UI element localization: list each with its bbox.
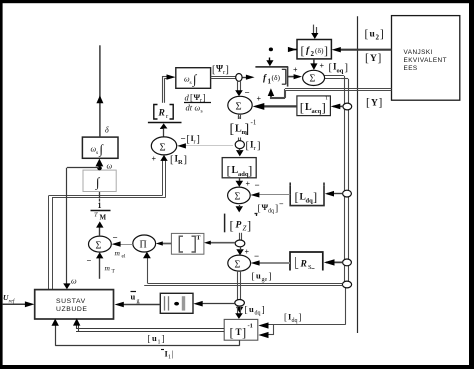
svg-text:−: − — [279, 200, 284, 209]
svg-text:R: R — [158, 109, 165, 119]
node label [u_1] — [148, 333, 165, 346]
wire S5 down to node u_dq — [238, 271, 241, 300]
svg-text:]: ] — [184, 155, 188, 166]
svg-text:Ψ: Ψ — [216, 64, 223, 74]
svg-text:[: [ — [148, 334, 151, 344]
summer S2 — [228, 96, 252, 121]
svg-text:[: [ — [227, 163, 231, 178]
wire I_1 feedback from T-1 bottom to SUSTAV bottom — [52, 319, 240, 346]
svg-text:dq: dq — [306, 198, 314, 205]
wire stub into f2 from top — [311, 25, 318, 39]
node circle [I_r] tap — [235, 138, 260, 153]
svg-text:[: [ — [230, 122, 235, 137]
block SUSTAV UZBUDE — [35, 290, 114, 319]
junction node at Psi_r branch — [236, 74, 242, 82]
svg-text:]: ] — [197, 134, 200, 145]
multiplier PI — [133, 235, 156, 252]
wire f1 to summer S1 — [288, 66, 302, 80]
svg-text:dq: dq — [292, 318, 298, 324]
wire bus continues below junction to T-1 inputs — [258, 288, 346, 339]
wire node down into summer S5 — [236, 247, 249, 257]
svg-text:]: ] — [379, 97, 383, 109]
svg-text:]: ] — [378, 53, 382, 65]
wire node down to T-1 — [235, 306, 243, 319]
svg-text:ω: ω — [71, 277, 77, 286]
svg-text:el: el — [122, 254, 126, 260]
node label [I_dq0] — [284, 312, 302, 325]
svg-text:[: [ — [258, 204, 261, 214]
wire R_r up into integrator — [162, 74, 175, 102]
node label [Y] upper — [365, 53, 381, 65]
svg-text:[: [ — [230, 219, 234, 233]
wire R_s to summer S5 — [251, 251, 290, 266]
node label [I_oq] — [329, 62, 349, 75]
block 1/T_M — [91, 199, 111, 222]
svg-text:oq: oq — [337, 68, 344, 75]
block omega_s integrator (delta) — [82, 137, 118, 158]
wire I_r into summer S3 — [177, 143, 233, 148]
svg-text:S: S — [308, 264, 312, 271]
svg-text:+: + — [293, 66, 298, 75]
svg-text:VANJSKI: VANJSKI — [404, 49, 433, 56]
separator line (network boundary) — [357, 16, 359, 333]
svg-text:[: [ — [295, 190, 299, 204]
node label [Psi_r] — [212, 64, 229, 77]
wire node to transpose box — [204, 241, 235, 245]
svg-text:]: ] — [262, 306, 265, 316]
block [L_adq] — [222, 158, 256, 178]
block [T]^-1 — [224, 319, 258, 340]
wire [Psi_r] output pair to junction and f1 — [211, 75, 255, 80]
svg-text:2: 2 — [311, 50, 315, 58]
svg-text:[: [ — [252, 272, 255, 282]
svg-text:]: ] — [248, 163, 252, 178]
svg-text:]: ] — [380, 29, 384, 41]
svg-text:[: [ — [212, 65, 215, 76]
svg-text:UZBUDE: UZBUDE — [56, 306, 88, 313]
svg-text:Y: Y — [371, 99, 378, 109]
node label [u_dq] — [245, 304, 265, 317]
svg-text:-1: -1 — [248, 323, 253, 330]
svg-text:−: − — [181, 134, 186, 144]
block [L_dq] — [290, 183, 324, 206]
node label [u_ge] — [252, 271, 272, 284]
svg-text:Σ: Σ — [160, 143, 166, 154]
svg-text:−: − — [245, 88, 250, 98]
block [L_acq] upper — [297, 96, 331, 116]
svg-text:m: m — [105, 264, 111, 273]
svg-text:Y: Y — [370, 54, 377, 64]
junction on bus at feedback pair to multiplier — [342, 281, 351, 288]
wire norm box to SUSTAV (u_g bar) — [115, 292, 161, 308]
wire S4 down to P_z — [236, 205, 244, 212]
svg-text:]: ] — [269, 272, 272, 282]
wire node to norm box — [193, 301, 235, 307]
svg-text:r: r — [194, 140, 196, 146]
svg-text:−: − — [254, 251, 259, 261]
wire m_T into summer S6 — [87, 252, 116, 279]
svg-text:m: m — [115, 249, 121, 258]
svg-text:(δ): (δ) — [315, 46, 324, 55]
svg-text:s: s — [96, 150, 98, 156]
svg-text:+: + — [320, 62, 325, 71]
node label [Psi_dq] — [258, 200, 285, 215]
svg-text:M: M — [100, 214, 107, 222]
wire U_ref into SUSTAV — [3, 293, 35, 307]
wire integrator to delta box with omega tap — [96, 159, 113, 171]
svg-text:g: g — [137, 299, 140, 305]
svg-text:[: [ — [366, 97, 370, 109]
wire node to L_adq — [236, 149, 244, 157]
svg-text:Σ: Σ — [310, 74, 316, 85]
svg-text:ge: ge — [262, 277, 268, 283]
svg-text:]: ] — [324, 44, 328, 58]
block f2(delta) — [297, 40, 331, 59]
wire feedback pair from junction going left to multiplier input — [143, 252, 343, 286]
block VANJSKI EKVIVALENT EES — [392, 16, 460, 101]
svg-text:]: ] — [275, 204, 278, 214]
summer S6 — [89, 236, 112, 252]
block norm |.| — [160, 293, 193, 313]
wire junction down to summer S2 — [235, 81, 249, 98]
svg-text:T: T — [236, 327, 242, 337]
node label |I_1| — [161, 349, 174, 361]
wire L_acq to summer S2 — [253, 95, 297, 110]
svg-text:[: [ — [329, 63, 333, 74]
junction on bus feeding L_acq — [331, 103, 352, 110]
svg-text:[: [ — [170, 155, 174, 166]
svg-text:u: u — [131, 292, 136, 302]
node label [I_R] — [170, 154, 187, 167]
wire P_z to node — [240, 233, 242, 240]
wire delta output up — [96, 45, 109, 137]
svg-text:[: [ — [284, 312, 287, 322]
svg-text:1: 1 — [98, 201, 102, 210]
svg-text:EKVIVALENT: EKVIVALENT — [404, 57, 447, 64]
block integrator (speed) — [83, 170, 116, 191]
wire [Y] pair from VANJSKI going left and down into f1 — [268, 88, 392, 99]
svg-text:]: ] — [345, 63, 349, 74]
wire multiplier to summer S6 (m_el) — [112, 233, 133, 260]
svg-text:R: R — [178, 159, 183, 166]
summer S1 — [303, 70, 325, 85]
block [P_z] on wire — [225, 213, 258, 232]
svg-text:Z: Z — [243, 225, 247, 233]
svg-text:−: − — [113, 233, 118, 243]
svg-text:+: + — [246, 180, 251, 189]
summer S3 — [151, 137, 176, 155]
wire transpose box to multiplier — [156, 241, 172, 245]
svg-text:1: 1 — [158, 340, 161, 346]
wire f2 to summer S1 — [310, 59, 324, 71]
wire u_1 feedback pair from T-1 to SUSTAV bottom — [73, 318, 224, 331]
svg-text:-1: -1 — [251, 119, 257, 127]
arrow stub into f2 left — [288, 47, 297, 52]
svg-text:(δ): (δ) — [272, 73, 281, 82]
wire omega tap to SUSTAV UZBUDE — [63, 168, 99, 290]
wire 1/T_M up to integrator box — [99, 192, 101, 199]
svg-text:[: [ — [365, 53, 369, 65]
svg-text:u: u — [249, 304, 254, 314]
node label [u2] — [365, 29, 384, 42]
svg-text:T: T — [196, 235, 201, 242]
svg-text:Σ: Σ — [235, 260, 241, 271]
svg-text:Π: Π — [140, 240, 147, 251]
svg-text:+: + — [257, 95, 262, 104]
svg-text:]: ] — [257, 141, 261, 152]
svg-text:[: [ — [230, 326, 234, 340]
block [R_s] — [290, 252, 323, 271]
wire L_dq to summer S4 — [250, 180, 290, 198]
block [R_r] — [148, 105, 182, 123]
svg-text:ω: ω — [107, 162, 113, 171]
svg-text:−: − — [255, 180, 260, 190]
svg-text:2: 2 — [376, 34, 380, 42]
svg-text:Σ: Σ — [235, 192, 241, 203]
svg-text:+: + — [152, 155, 157, 164]
dot node left of f2 — [269, 48, 273, 52]
svg-text:|: | — [172, 349, 174, 359]
summer S4 — [228, 187, 251, 204]
svg-text:u: u — [256, 271, 261, 281]
svg-text:]: ] — [247, 219, 251, 233]
junction on bus feeding R_s — [324, 259, 352, 266]
summer S5 — [228, 255, 251, 271]
block transpose [ ]^T — [171, 233, 204, 254]
svg-text:[: [ — [245, 306, 248, 316]
svg-text:δ: δ — [105, 126, 109, 135]
svg-text:]: ] — [203, 93, 206, 103]
svg-text:[: [ — [301, 44, 305, 58]
svg-text:acq: acq — [312, 108, 322, 115]
wire field voltage pair from SUSTAV top to summer S3 — [49, 155, 168, 290]
svg-text:[: [ — [187, 134, 190, 145]
svg-text:u: u — [152, 333, 157, 343]
arrow into R_r from summer S3 — [160, 123, 168, 136]
svg-text:R: R — [300, 260, 307, 270]
svg-text:Σ: Σ — [96, 241, 102, 252]
svg-text:Σ: Σ — [236, 102, 242, 113]
svg-text:[: [ — [365, 29, 369, 41]
svg-text:P: P — [236, 221, 242, 231]
node circle above summer S5 — [235, 240, 245, 247]
svg-text:]: ] — [162, 334, 165, 344]
wire S6 up to 1/T_M — [96, 221, 103, 236]
svg-text:]: ] — [226, 65, 229, 76]
svg-text:−: − — [160, 124, 165, 134]
svg-text:[: [ — [246, 141, 250, 152]
svg-text:EES: EES — [404, 65, 418, 72]
wire u2 from VANJSKI to f2 — [332, 47, 392, 52]
svg-text:]: ] — [299, 312, 302, 322]
block f1(delta) — [255, 67, 288, 87]
junction on bus feeding L_dq — [325, 190, 352, 197]
fraction d[Psi_r]/dt omega_s — [184, 92, 211, 115]
svg-text:T: T — [94, 212, 98, 219]
svg-text:[: [ — [300, 100, 304, 115]
svg-text:]: ] — [322, 100, 326, 115]
svg-text:−: − — [87, 256, 92, 266]
svg-text:s: s — [190, 80, 192, 86]
svg-text:s: s — [201, 109, 203, 115]
arrow into f1 top — [266, 58, 273, 67]
block [L_m]^-1 on wire — [230, 114, 257, 137]
svg-text:]: ] — [313, 190, 317, 204]
svg-text:SUSTAV: SUSTAV — [56, 298, 86, 305]
svg-text:]: ] — [245, 122, 250, 137]
svg-text:dq: dq — [255, 311, 261, 317]
bus vector pair from summer S1 down the right side — [325, 76, 349, 284]
svg-text:dq: dq — [268, 209, 274, 215]
svg-text:]: ] — [242, 326, 246, 340]
wire L_adq to summer S4 — [236, 178, 251, 189]
svg-text:+: + — [245, 248, 250, 257]
node label -[I_r] — [181, 133, 200, 146]
integrator block omega_s (rotor flux) — [176, 68, 211, 89]
svg-text:dt: dt — [186, 103, 193, 113]
node label [Y] lower — [366, 97, 382, 109]
node circle u_dq tap — [235, 300, 245, 307]
